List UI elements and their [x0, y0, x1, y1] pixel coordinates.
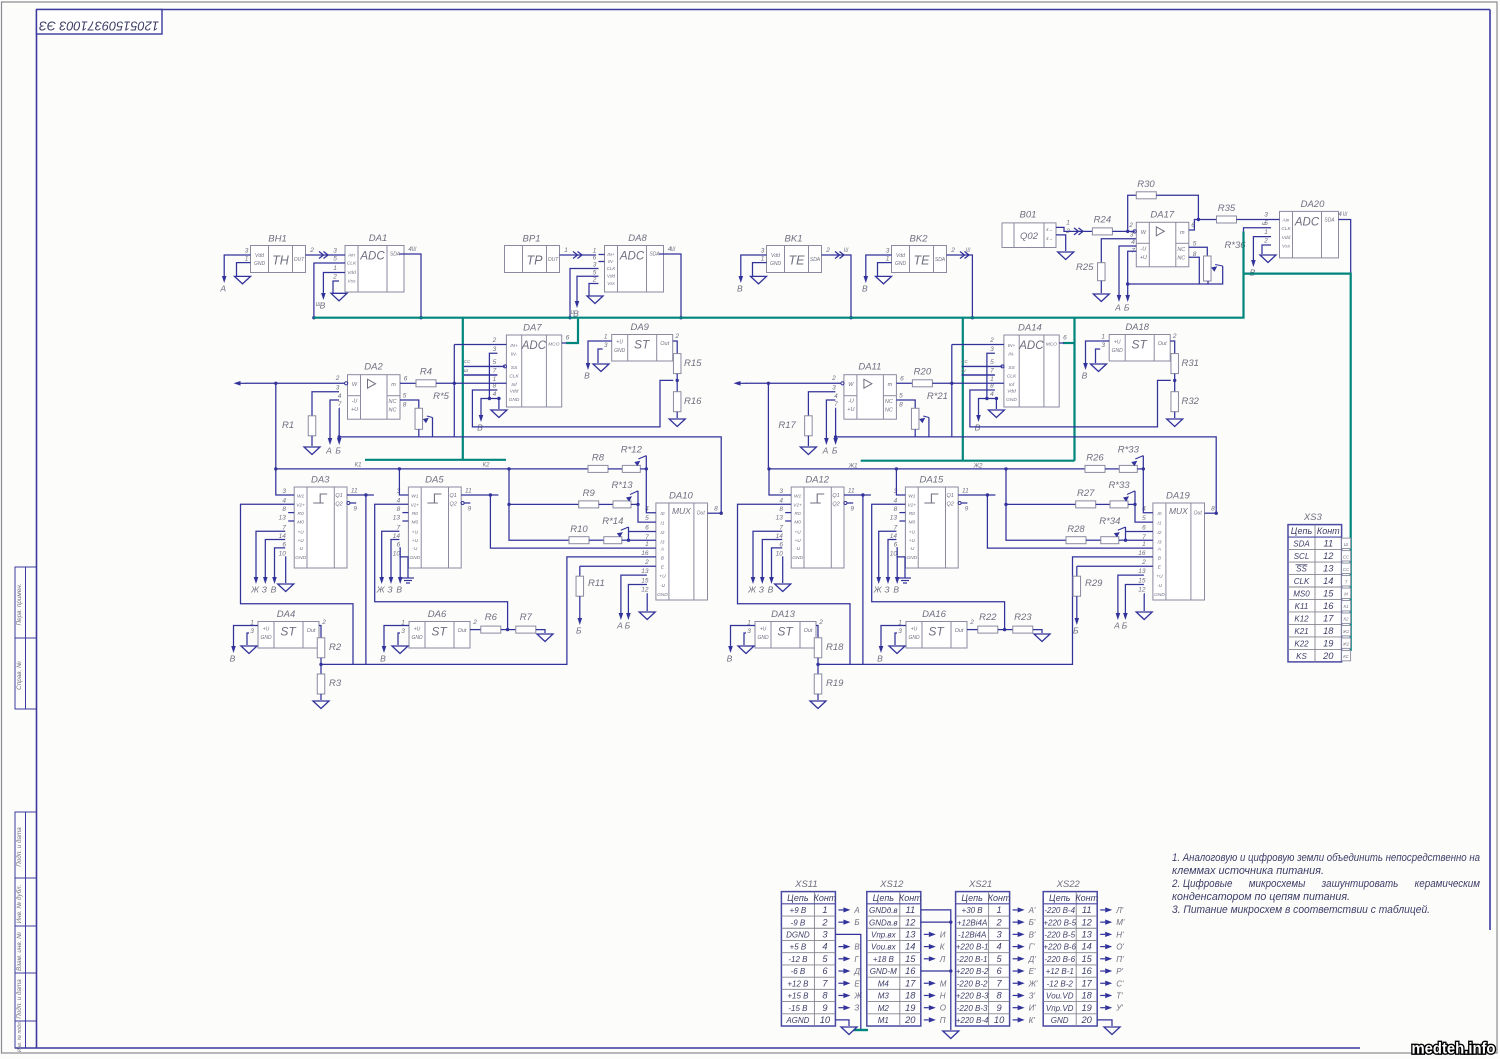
svg-text:11: 11: [1082, 905, 1092, 915]
supply arrow В: [862, 276, 868, 294]
ground: [841, 1027, 857, 1035]
net arrow О: [924, 1004, 946, 1013]
svg-text:R30: R30: [1137, 179, 1155, 190]
resistor R1: [282, 416, 316, 436]
supply arrow Б: [625, 612, 631, 631]
wire BK2 SDA to bus: [947, 255, 973, 318]
title stamp box: [37, 10, 163, 35]
resistor R30: [1136, 179, 1156, 199]
wire BH1 pin3 to arrow A: [224, 255, 242, 276]
junction: [312, 316, 315, 319]
op-amp DA17: [1136, 209, 1189, 266]
wire input to DA2: [246, 382, 345, 384]
svg-text:+U: +U: [909, 538, 916, 544]
wire gnd stem: [498, 399, 500, 410]
svg-text:Цепь: Цепь: [787, 893, 809, 903]
wire pin1 to arrow: [731, 626, 747, 646]
svg-text:+U: +U: [909, 530, 916, 536]
svg-text:1: 1: [564, 247, 568, 254]
supply arrow В: [477, 414, 483, 433]
wire M0 stub: [899, 520, 905, 522]
bus teal drop Zh: [962, 318, 964, 461]
net arrow А': [1013, 906, 1036, 915]
ground: [278, 584, 294, 592]
node divider: [319, 663, 322, 666]
svg-text:6: 6: [397, 541, 401, 548]
svg-text:2: 2: [825, 247, 830, 254]
svg-text:ADC: ADC: [521, 340, 547, 352]
wire to IN+: [454, 344, 506, 346]
trimmer resistor R*21: [911, 391, 948, 429]
SS overline: [1296, 564, 1308, 566]
wire Q1 out jt2: [958, 494, 995, 496]
op-amp DA2: [348, 362, 401, 420]
resistor R35: [1217, 203, 1237, 223]
svg-text:КС: КС: [1343, 654, 1349, 659]
wire GND dig: [896, 557, 905, 578]
svg-text:11: 11: [351, 488, 358, 495]
input circle DA11: [841, 382, 844, 385]
wire trimmer out: [1137, 468, 1143, 470]
svg-text:R8: R8: [592, 453, 605, 464]
svg-text:К': К': [1029, 1016, 1036, 1025]
wire pin1 stub: [400, 625, 409, 627]
supply arrow В: [893, 576, 899, 595]
svg-text:З: З: [387, 585, 393, 595]
wire A select: [987, 495, 1153, 548]
wire M0 stub: [785, 520, 791, 522]
svg-text:А: А: [219, 284, 226, 294]
svg-text:К1: К1: [355, 463, 362, 469]
svg-text:14: 14: [1082, 942, 1092, 952]
svg-text:NC: NC: [389, 408, 397, 414]
resistor R27: [1076, 488, 1096, 508]
svg-text:-U: -U: [795, 546, 801, 552]
svg-text:Vои.вх: Vои.вх: [871, 943, 897, 952]
svg-text:IN-: IN-: [608, 259, 615, 264]
svg-text:+U: +U: [794, 538, 801, 544]
resistor R24: [1092, 215, 1112, 235]
resistor R7: [516, 612, 536, 633]
svg-text:2: 2: [472, 619, 477, 626]
svg-text:+U: +U: [412, 538, 419, 544]
node tap R9R10: [1004, 467, 1007, 470]
wire: [872, 504, 1005, 629]
svg-text:5: 5: [333, 256, 337, 263]
svg-text:+U: +U: [794, 530, 801, 536]
wire: [1207, 281, 1209, 284]
wire vertical amp out node: [951, 345, 953, 437]
net arrow З': [1013, 991, 1036, 1000]
svg-text:11: 11: [962, 488, 969, 495]
wire DA5 +U arrow: [382, 531, 400, 576]
connector XS21: [956, 879, 1011, 1026]
wire E row: [580, 565, 656, 567]
svg-text:DA5: DA5: [425, 475, 444, 486]
svg-text:OUT: OUT: [548, 257, 560, 263]
svg-text:R*12: R*12: [621, 445, 643, 456]
svg-text:В: В: [1082, 371, 1088, 381]
wire -U to arrow: [330, 400, 339, 437]
svg-text:2: 2: [335, 375, 340, 382]
svg-text:-U: -U: [909, 546, 915, 552]
wire M0 stub: [402, 520, 408, 522]
svg-text:+5 В: +5 В: [790, 943, 807, 952]
net arrow Е: [838, 979, 860, 988]
wire R0 stub: [288, 512, 294, 514]
supply arrow З: [387, 576, 393, 595]
wire +U2 arrow: [265, 540, 285, 577]
svg-text:6: 6: [282, 541, 286, 548]
svg-text:6: 6: [645, 524, 649, 531]
svg-text:R*34: R*34: [1099, 516, 1120, 527]
svg-text:1: 1: [604, 334, 608, 341]
net arrow В: [838, 943, 860, 952]
ground: [304, 447, 320, 455]
svg-text:А: А: [1114, 303, 1121, 313]
svg-text:14: 14: [905, 942, 915, 952]
svg-text:I3: I3: [660, 540, 664, 546]
wire GND row to arrow: [481, 399, 497, 415]
svg-text:В: В: [230, 654, 236, 664]
svg-text:MUX: MUX: [672, 506, 691, 516]
svg-text:-12 В: -12 В: [788, 955, 808, 964]
svg-text:R19: R19: [826, 678, 844, 689]
svg-text:15: 15: [905, 954, 916, 964]
wire tap to DA3 pin3: [276, 469, 294, 495]
svg-text:4: 4: [397, 498, 401, 505]
svg-text:4→: 4→: [1046, 227, 1053, 232]
svg-text:В: В: [854, 943, 860, 952]
svg-text:medteh.info: medteh.info: [1412, 1041, 1496, 1058]
svg-text:+U: +U: [760, 627, 767, 633]
svg-text:I2: I2: [1157, 530, 1161, 536]
svg-text:М2: М2: [878, 1004, 890, 1013]
svg-text:R22: R22: [979, 612, 997, 623]
svg-text:М3: М3: [878, 992, 890, 1001]
svg-text:MS0: MS0: [1293, 589, 1310, 598]
net arrow Г': [1013, 943, 1035, 952]
svg-text:R0: R0: [412, 511, 418, 517]
svg-text:+U: +U: [847, 407, 854, 413]
svg-text:1: 1: [1142, 541, 1146, 548]
supply arrow В: [573, 301, 579, 319]
integrator DA12: [791, 475, 844, 569]
wire DA1 pin1 stub: [339, 272, 345, 274]
wire pin1 stub: [746, 625, 755, 627]
svg-text:Vпр.вх: Vпр.вх: [871, 930, 897, 939]
svg-text:13: 13: [1138, 568, 1146, 575]
svg-text:6: 6: [404, 376, 408, 383]
svg-text:Б: Б: [1073, 626, 1079, 636]
ground: [537, 634, 553, 642]
wire MUX out stub: [1205, 512, 1217, 514]
svg-text:3: 3: [493, 346, 497, 353]
wire R10 to trimmer: [1086, 539, 1101, 541]
bus teal Zh1-Zh2: [861, 460, 1075, 462]
wire XS12 pin12: [921, 921, 951, 923]
wire R6 to R7: [998, 629, 1013, 631]
net arrow М': [1100, 918, 1125, 927]
node DA17 out: [1197, 218, 1200, 221]
svg-text:6: 6: [593, 255, 597, 262]
svg-text:М: М: [940, 979, 947, 988]
svg-text:Т': Т': [1116, 991, 1123, 1000]
svg-text:Подп. и дата: Подп. и дата: [15, 979, 23, 1019]
node bus start: [274, 467, 277, 470]
ground: [491, 410, 507, 418]
wire E row: [1077, 565, 1153, 567]
XS3 pin tag row 4: [1342, 576, 1351, 586]
wire DA20 SDA down to connector bus: [1339, 220, 1351, 274]
wire to R11: [1076, 566, 1078, 576]
svg-text:+U: +U: [1114, 340, 1121, 346]
wire to MUX I2: [1126, 531, 1153, 533]
svg-text:TE: TE: [789, 254, 806, 268]
svg-text:Ш: Ш: [569, 310, 574, 316]
svg-text:GND: GND: [792, 555, 803, 561]
svg-text:2: 2: [989, 337, 994, 344]
wire pin5 to trimmer: [896, 400, 915, 408]
svg-text:CLK: CLK: [509, 374, 519, 380]
bus teal ground tie: [854, 1029, 869, 1031]
svg-text:+220 В-2: +220 В-2: [956, 967, 989, 976]
svg-text:SDA: SDA: [1293, 540, 1309, 549]
svg-text:Л': Л': [1115, 906, 1123, 915]
svg-text:Ж: Ж: [747, 585, 757, 595]
resistor R18: [814, 638, 844, 658]
supply arrow В: [1250, 259, 1256, 278]
svg-text:W1: W1: [794, 493, 802, 499]
svg-text:R*14: R*14: [602, 516, 623, 527]
svg-text:3: 3: [990, 346, 994, 353]
svg-text:R18: R18: [826, 642, 844, 653]
svg-text:Vои.VD: Vои.VD: [1046, 992, 1074, 1001]
svg-text:М4: М4: [878, 979, 890, 988]
node R9 feed: [507, 503, 510, 506]
supply arrow Ж: [376, 576, 386, 595]
junction: [849, 316, 852, 319]
svg-text:20: 20: [904, 1015, 916, 1025]
wire: [836, 437, 1217, 513]
wire DA8 SDA to bus: [659, 254, 681, 318]
bus teal drop DA14: [1073, 318, 1075, 461]
wire R9 to trimmer: [1096, 503, 1110, 505]
node I0 feed: [645, 467, 648, 470]
svg-text:Vss: Vss: [607, 281, 615, 286]
svg-text:Конт: Конт: [814, 893, 837, 903]
svg-text:R*33: R*33: [1118, 445, 1140, 456]
net arrow В': [1013, 930, 1036, 939]
XS3 pin tag row 10: [1342, 650, 1351, 660]
svg-text:В: В: [737, 284, 743, 294]
wire DA20 Vss to ground: [1262, 245, 1271, 254]
svg-text:9: 9: [822, 1003, 827, 1013]
svg-text:Ж1: Ж1: [1342, 629, 1350, 634]
wire BK1 pin3 stub: [759, 254, 767, 256]
ground: [1167, 419, 1183, 427]
svg-text:+18 В: +18 В: [873, 955, 895, 964]
svg-text:16: 16: [641, 550, 649, 557]
sensor BH1: [251, 234, 306, 273]
svg-text:И': И': [1029, 1004, 1037, 1013]
svg-text:R32: R32: [1182, 396, 1200, 407]
wire DA15 +U arrow: [879, 531, 897, 576]
wire DA1 Vss to ground: [333, 281, 339, 293]
wire MUX GND: [646, 594, 648, 611]
svg-text:Ш: Ш: [966, 248, 971, 254]
resistor R29: [1073, 576, 1103, 596]
svg-text:12: 12: [905, 917, 916, 927]
svg-text:R2: R2: [329, 642, 342, 653]
wire DA8 CLK to bus: [570, 269, 599, 318]
integrator DA3: [294, 475, 347, 569]
svg-text:Vdd: Vdd: [607, 274, 616, 279]
resistor R32: [1171, 392, 1200, 412]
svg-text:10: 10: [279, 550, 287, 557]
svg-text:Out: Out: [804, 628, 813, 634]
wire BH1 pin1 to ground: [237, 263, 243, 277]
svg-text:+30 В: +30 В: [962, 906, 984, 915]
ground: [1091, 364, 1107, 372]
svg-text:5: 5: [1142, 515, 1146, 522]
ground: [235, 276, 251, 284]
wire Q1 out: [844, 494, 871, 496]
svg-text:+220 В-5: +220 В-5: [1043, 918, 1076, 927]
svg-text:DA20: DA20: [1301, 199, 1325, 210]
wire pin1 stub: [249, 625, 258, 627]
connector XS11: [781, 879, 836, 1026]
svg-text:ADC: ADC: [1294, 216, 1320, 228]
wire +U to arrow: [834, 408, 836, 437]
svg-text:Н': Н': [1116, 930, 1124, 939]
svg-text:Л: Л: [939, 955, 946, 964]
supply arrow А: [1113, 612, 1120, 631]
svg-text:СС: СС: [464, 359, 471, 364]
svg-text:Конт: Конт: [1317, 526, 1340, 536]
node IN- to gnd row: [985, 397, 988, 400]
wire R30 to output node: [1156, 195, 1198, 219]
svg-text:2: 2: [592, 277, 597, 284]
svg-text:DA1: DA1: [369, 233, 387, 244]
svg-text:Инв. № подл.: Инв. № подл.: [17, 1021, 23, 1052]
wire pin3 to R1: [312, 392, 339, 416]
svg-text:К2: К2: [1344, 617, 1350, 622]
wire ST pin1 to arrow: [588, 341, 603, 362]
svg-text:5: 5: [593, 269, 597, 276]
node MUX out: [720, 512, 723, 515]
svg-text:9: 9: [850, 506, 854, 513]
svg-text:KS: KS: [1296, 652, 1307, 661]
svg-text:2: 2: [996, 917, 1003, 927]
svg-text:GND: GND: [409, 555, 420, 561]
node divider: [1173, 379, 1176, 382]
svg-text:Б: Б: [335, 446, 341, 456]
svg-text:Цепь: Цепь: [1291, 526, 1313, 536]
svg-text:m: m: [888, 382, 893, 388]
svg-text:-12Вi4А: -12Вi4А: [958, 930, 986, 939]
svg-text:M0: M0: [908, 519, 915, 525]
wire DA8 pin1 stub: [599, 254, 605, 256]
svg-text:16: 16: [1323, 601, 1334, 611]
svg-text:П: П: [940, 1016, 946, 1025]
svg-text:Перв. примен.: Перв. примен.: [16, 584, 23, 626]
resistor R19: [814, 674, 844, 694]
wire to MUX I3: [1126, 539, 1153, 541]
svg-text:В: В: [768, 585, 774, 595]
svg-text:V2+: V2+: [410, 503, 419, 509]
connector XS12: [867, 879, 922, 1026]
wire Q1 out: [347, 494, 374, 496]
ADC DA20: [1280, 199, 1339, 258]
svg-text:R31: R31: [1182, 358, 1199, 369]
net arrow И': [1013, 1004, 1037, 1013]
wire trimmer out: [1128, 503, 1135, 505]
svg-text:З: З: [854, 1004, 859, 1013]
svg-text:1: 1: [886, 256, 890, 263]
wire trimmer out: [631, 503, 638, 505]
resistor R9: [579, 488, 599, 508]
svg-text:+U: +U: [659, 574, 666, 580]
resistor R23: [1013, 612, 1033, 633]
comparator DA18: [1109, 322, 1170, 361]
svg-text:M0: M0: [794, 519, 801, 525]
resistor R10: [569, 524, 589, 544]
net arrow К': [1013, 1016, 1036, 1025]
svg-text:3: 3: [1130, 232, 1134, 239]
wire: [1128, 266, 1223, 284]
svg-text:DA16: DA16: [922, 609, 946, 620]
wire to R9 chain: [1006, 469, 1076, 505]
svg-text:Q1: Q1: [450, 493, 457, 499]
wire DA3 +U to arrow: [256, 531, 285, 576]
svg-text:1: 1: [593, 248, 597, 255]
net arrow Н': [1100, 930, 1124, 939]
svg-text:R10: R10: [570, 524, 588, 535]
svg-text:3: 3: [886, 248, 890, 255]
wire R10 to trimmer: [589, 539, 604, 541]
supply arrow А: [822, 437, 829, 456]
trimmer wiper R*13: [626, 491, 638, 502]
net arrow П': [1100, 955, 1124, 964]
supply arrow Ж: [250, 576, 260, 595]
wire MCO stub: [1059, 342, 1064, 344]
wire R9 to trimmer: [599, 503, 613, 505]
svg-text:12: 12: [1082, 917, 1093, 927]
svg-text:Д': Д': [1028, 955, 1037, 964]
svg-text:В: В: [877, 654, 883, 664]
wire BK2 pin1 to ground: [878, 263, 884, 277]
svg-text:2: 2: [1141, 559, 1146, 566]
ground: [313, 701, 329, 709]
wire: [738, 504, 851, 664]
svg-text:BK1: BK1: [785, 234, 803, 245]
svg-text:GND: GND: [770, 261, 782, 267]
node MUX out: [1215, 512, 1218, 515]
wire R11 down: [1076, 596, 1078, 617]
wire chevron: [835, 252, 844, 259]
svg-text:IN+: IN+: [510, 343, 518, 349]
trimmer resistor R*12: [621, 445, 643, 473]
svg-text:3. Питание микросхем в соответ: 3. Питание микросхем в соответствии с та…: [1172, 904, 1430, 916]
svg-text:A: A: [1157, 547, 1161, 553]
svg-text:R29: R29: [1085, 578, 1103, 589]
svg-text:1: 1: [761, 256, 765, 263]
net arrow М: [924, 979, 947, 988]
svg-text:7: 7: [338, 401, 342, 408]
SS pin circle: [504, 365, 507, 368]
svg-text:8: 8: [779, 506, 783, 513]
